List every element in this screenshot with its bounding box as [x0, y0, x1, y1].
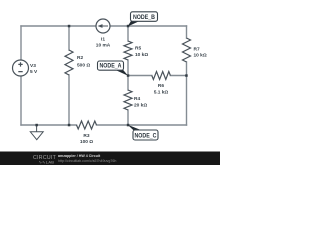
node NODE_C label	[133, 130, 158, 140]
current source I1	[96, 19, 110, 33]
wire node A to R6	[128, 75, 152, 77]
svg-text:R7: R7	[194, 46, 200, 52]
node R2-bottom junction	[68, 124, 71, 127]
node ground junction	[35, 124, 38, 127]
svg-text:10 kΩ: 10 kΩ	[194, 53, 207, 59]
svg-text:5.1 kΩ: 5.1 kΩ	[154, 89, 169, 95]
voltage source V3	[13, 60, 29, 76]
wire top rail right	[110, 25, 187, 27]
svg-text:NODE_B: NODE_B	[133, 14, 155, 21]
wire right rail	[186, 26, 188, 125]
wire left rail lower	[20, 76, 22, 125]
svg-text:10 kΩ: 10 kΩ	[135, 52, 148, 58]
wire R4 to node C	[127, 110, 129, 125]
svg-text:NODE_C: NODE_C	[135, 132, 157, 139]
node R2-top junction	[68, 25, 71, 28]
svg-text:amzappler / HW 4 Circuit: amzappler / HW 4 Circuit	[58, 154, 101, 158]
node R6-right junction	[185, 74, 188, 77]
svg-text:R2: R2	[77, 55, 83, 61]
node NODE_A label	[98, 61, 124, 70]
wire node A to R4	[127, 76, 129, 91]
resistor R5	[124, 41, 132, 60]
node A flag tail	[115, 70, 128, 76]
wire R6 to right rail	[170, 75, 186, 77]
svg-text:http://circuitlab.com/c/s57h49: http://circuitlab.com/c/s57h49uvg76h	[58, 159, 116, 163]
svg-text:R4: R4	[134, 96, 140, 102]
svg-text:∿∿LAB: ∿∿LAB	[39, 159, 55, 164]
wire left rail upper	[20, 26, 22, 60]
wire R2 branch	[68, 26, 70, 125]
node B junction	[127, 25, 130, 28]
wire top rail left	[21, 25, 96, 27]
resistor R2	[65, 50, 73, 75]
node C junction	[127, 124, 130, 127]
junction dots	[35, 25, 187, 127]
labels	[30, 37, 207, 145]
svg-text:R3: R3	[83, 133, 89, 139]
svg-text:5 V: 5 V	[30, 69, 38, 75]
svg-text:R6: R6	[158, 83, 164, 89]
svg-text:20 kΩ: 20 kΩ	[134, 103, 147, 109]
wire R5 to node A	[127, 60, 129, 76]
footer bar	[0, 152, 220, 166]
wire node B to R5	[127, 26, 129, 41]
ground	[30, 125, 43, 140]
node C flag tail	[128, 125, 142, 130]
resistor R6	[152, 72, 171, 80]
resistor R7	[183, 38, 191, 62]
node A junction	[127, 74, 130, 77]
node NODE_B label	[131, 12, 158, 21]
svg-text:V3: V3	[30, 63, 36, 69]
node B flag tail	[128, 21, 140, 27]
resistor R4	[124, 90, 132, 110]
svg-text:NODE_A: NODE_A	[100, 63, 122, 70]
wire bottom rail right	[97, 124, 187, 126]
svg-text:500 Ω: 500 Ω	[77, 63, 90, 69]
footer CircuitLab logo	[33, 155, 57, 164]
svg-text:100 Ω: 100 Ω	[80, 139, 93, 145]
svg-text:I1: I1	[101, 37, 105, 43]
resistor R3	[77, 121, 97, 129]
svg-text:R5: R5	[135, 46, 141, 52]
svg-text:10 mA: 10 mA	[96, 42, 111, 48]
wire bottom rail left	[21, 124, 77, 126]
